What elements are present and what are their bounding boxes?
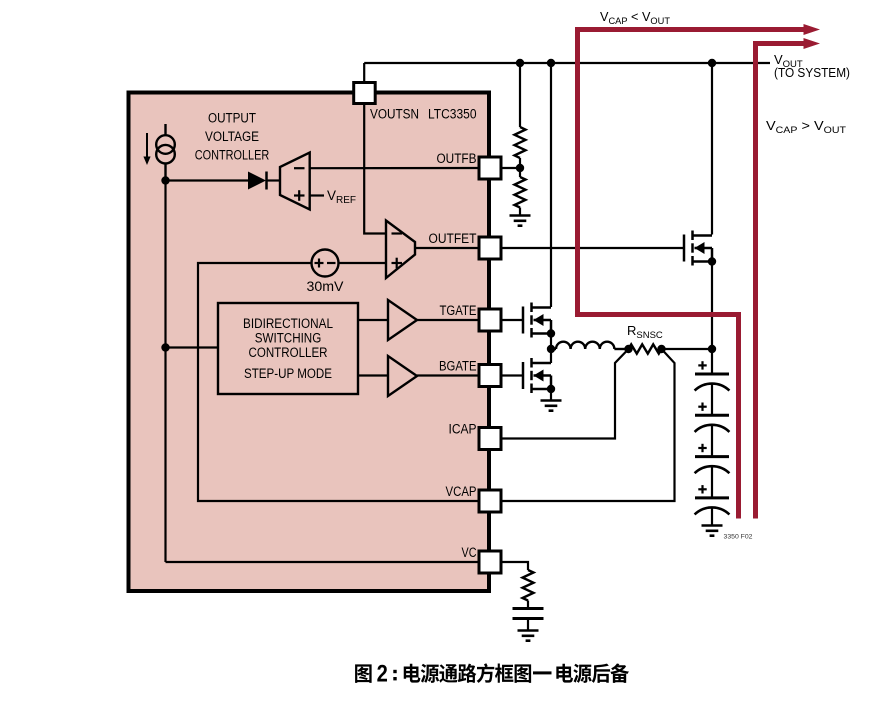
node RSNSC left <box>624 345 632 353</box>
svg-text:OUTFB: OUTFB <box>437 151 477 166</box>
svg-text:3350 F02: 3350 F02 <box>724 534 753 541</box>
buffer TGATE driver <box>388 300 417 340</box>
node diode wire tap <box>161 176 169 184</box>
node top rail to M1 drain <box>547 59 555 67</box>
transistor M2 BGATE NMOS <box>523 358 551 393</box>
arrowhead VCAP&gt;VOUT <box>804 38 821 49</box>
node RSNSC right <box>657 345 665 353</box>
pin VOUTSN <box>354 83 419 122</box>
inductor L1 <box>551 342 629 349</box>
wire box to TGATE driver <box>358 319 388 321</box>
op-amp A1 output voltage controller <box>280 153 310 210</box>
wire VCAP kelvin sense <box>501 349 675 501</box>
resistor R3 <box>523 570 534 601</box>
svg-text:VC: VC <box>462 545 477 560</box>
svg-text:LTC3350: LTC3350 <box>428 107 477 122</box>
wire OUTFET pin to M3 gate <box>501 247 684 249</box>
svg-text:VCAP: VCAP <box>446 484 477 499</box>
node top rail to M3 drain <box>708 59 716 67</box>
svg-text:OUTFET: OUTFET <box>429 231 477 246</box>
wire box to BGATE driver <box>358 374 388 376</box>
svg-text:TGATE: TGATE <box>440 303 477 318</box>
IC body LTC3350 <box>129 93 490 592</box>
wire 30mV to A2 noninverting input <box>339 262 387 264</box>
ground G2 BGATE source <box>541 401 562 411</box>
svg-text:30mV: 30mV <box>307 279 344 294</box>
svg-text:BGATE: BGATE <box>439 359 477 374</box>
wire left rail (current source to VC) <box>164 181 166 563</box>
pin OUTFET <box>429 231 502 259</box>
wire VCAP&lt;VOUT power path (red) <box>578 30 807 519</box>
pin ICAP <box>449 422 502 450</box>
wire node to diode anode <box>166 179 249 181</box>
capacitor C5 supercap <box>695 485 730 525</box>
wire M2 drain to switch node <box>550 349 552 363</box>
wire node to R2 <box>519 168 521 177</box>
wire top rail to R1 <box>519 63 521 127</box>
wire ICAP kelvin sense <box>501 349 629 439</box>
text OUTPUT VOLTAGE CONTROLLER <box>195 111 270 163</box>
capacitor C2 supercap <box>695 361 730 415</box>
current source arrow <box>143 133 150 165</box>
wire rail to controller box <box>166 346 219 348</box>
wire A1 inverting input to OUTFB <box>310 167 479 169</box>
resistor R2 <box>515 177 526 208</box>
resistor RSNSC <box>629 344 662 353</box>
diode D1 <box>248 172 280 190</box>
wire RSNSC to capacitor stack <box>662 348 713 350</box>
ground G1 divider <box>510 216 531 226</box>
pin TGATE <box>440 303 502 331</box>
label VREF <box>310 194 324 196</box>
controller box BIDIRECTIONAL SWITCHING CONTROLLER <box>218 303 358 394</box>
svg-text:VOLTAGE: VOLTAGE <box>205 129 259 144</box>
wire VCAP&gt;VOUT power path (red) <box>756 44 807 519</box>
transistor M3 external FET <box>684 231 712 266</box>
wire BGATE driver to pin <box>417 374 479 376</box>
wire VOUTSN to A2 inverting input <box>364 104 386 234</box>
wire BGATE pin to M2 gate <box>501 374 523 376</box>
svg-text:VCAP < VOUT: VCAP < VOUT <box>600 9 670 27</box>
node M3 source-body <box>708 257 716 265</box>
wire VCAP node to C1 <box>711 349 713 374</box>
caption figure 2 <box>355 661 629 688</box>
wire M2 source to ground <box>550 389 552 400</box>
wire VOUTSN up <box>363 63 365 83</box>
node M1 source <box>547 329 555 337</box>
node controller wire tap <box>161 343 169 351</box>
capacitor C1 VC filter <box>513 609 544 631</box>
wire M1 source to switch node <box>550 334 552 350</box>
wire R1 to node <box>519 158 521 168</box>
wire TGATE pin to M1 gate <box>501 319 523 321</box>
svg-text:2: 2 <box>377 661 388 688</box>
ground G3 capacitor stack <box>702 526 723 536</box>
arrowhead VCAP&lt;VOUT <box>804 24 821 35</box>
current source I1 <box>156 124 175 181</box>
svg-text:VOUTSN: VOUTSN <box>370 107 419 122</box>
wire A2 output to OUTFET pin <box>415 247 479 249</box>
svg-text:CONTROLLER: CONTROLLER <box>195 148 270 163</box>
wire R2 to ground <box>519 208 521 216</box>
svg-text:OUTPUT: OUTPUT <box>208 111 256 126</box>
wire VOUT top rail <box>364 62 770 64</box>
wire R3 to C1 <box>527 601 529 608</box>
wire rail to VC pin <box>166 561 480 563</box>
wire OUTFB pin to divider <box>501 167 520 169</box>
svg-text:(TO SYSTEM): (TO SYSTEM) <box>774 66 850 80</box>
node feedback divider <box>516 164 524 172</box>
capacitor C4 supercap <box>695 444 730 498</box>
svg-text:ICAP: ICAP <box>449 422 477 437</box>
svg-text:CONTROLLER: CONTROLLER <box>249 345 328 360</box>
svg-text:VCAP > VOUT: VCAP > VOUT <box>766 118 846 136</box>
buffer BGATE driver <box>388 356 417 396</box>
pin VCAP <box>446 484 502 512</box>
svg-text:RSNSC: RSNSC <box>627 323 663 341</box>
pin OUTFB <box>437 151 502 179</box>
ground G4 VC filter <box>518 631 539 641</box>
svg-text:STEP-UP MODE: STEP-UP MODE <box>244 366 332 381</box>
wire 30mV to VCAP pin rail <box>198 263 479 501</box>
wire top rail to M1 drain <box>550 63 552 307</box>
pin BGATE <box>439 359 501 387</box>
capacitor C3 supercap <box>695 403 730 457</box>
svg-text:BIDIRECTIONAL: BIDIRECTIONAL <box>243 316 333 331</box>
offset source 30mV <box>312 250 339 277</box>
resistor R1 <box>515 127 526 158</box>
wire VC pin to R3 <box>501 562 528 570</box>
wire TGATE driver to pin <box>417 319 479 321</box>
pin VC <box>462 545 502 573</box>
transistor M1 TGATE NMOS <box>523 303 551 338</box>
svg-text:SWITCHING: SWITCHING <box>255 331 322 346</box>
node M2 source <box>547 385 555 393</box>
node VCAP top <box>708 345 716 353</box>
op-amp A2 OUTFET comparator <box>386 221 415 279</box>
node switch SW <box>547 345 555 353</box>
wire M3 source to VCAP node <box>711 262 713 350</box>
node top rail to divider <box>516 59 524 67</box>
wire top rail to M3 drain <box>711 63 713 235</box>
